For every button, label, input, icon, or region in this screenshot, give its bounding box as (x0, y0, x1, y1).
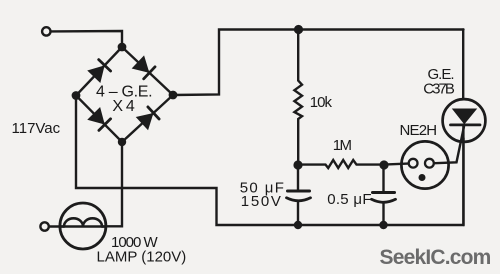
diode D3 (bottom-left, pointing to bottom node) (88, 108, 110, 130)
svg-text:SeekIC.com: SeekIC.com (380, 246, 491, 269)
node R1/1M/C1 junction (295, 162, 302, 169)
lamp LP1 1000W (circle + filament) (60, 203, 106, 249)
neon lamp NE2H (circle + electrodes) (401, 141, 448, 188)
capacitor C2 0.5uF (wire + plates) (372, 165, 396, 225)
wire junction to NE2H (384, 164, 408, 165)
SCR Q1 G.E. C37B (circle + thyristor symbol) (443, 30, 486, 226)
diode D2 (top-right, pointing to right node) (133, 57, 155, 79)
wire bridge diamond edges (76, 47, 173, 142)
node bridge-right (170, 92, 176, 98)
svg-text:LAMP (120V): LAMP (120V) (97, 249, 187, 266)
svg-text:1M: 1M (333, 137, 352, 154)
diode D1 (top-left, pointing to top node) (88, 60, 110, 82)
svg-text:C37B: C37B (423, 80, 455, 97)
svg-text:0.5 μF: 0.5 μF (327, 191, 372, 208)
resistor R1 10k (vertical) (294, 30, 302, 165)
svg-text:NE2H: NE2H (400, 122, 437, 139)
terminal T2 (bottom input) (40, 222, 48, 230)
terminal T1 (top input) (42, 27, 50, 35)
node top-rail junction (295, 26, 302, 33)
node 1M/C2/NE2H junction (381, 162, 388, 169)
node bridge-top (119, 44, 125, 50)
capacitor C1 50uF (wire + plates) (287, 165, 311, 225)
svg-text:150V: 150V (241, 193, 283, 210)
node bridge-left (73, 92, 79, 98)
resistor R2 1M (horizontal) (298, 160, 381, 168)
svg-text:10k: 10k (310, 94, 333, 111)
node C2-bus junction (381, 222, 387, 228)
svg-text:X 4: X 4 (112, 98, 135, 115)
wire bottom bus (bridge-left to SCR cathode) (76, 96, 464, 226)
wire T1 to bridge top (52, 31, 122, 45)
node bridge-bottom (119, 139, 125, 145)
wire bridge-bottom to lamp (106, 142, 122, 226)
wire NE2H to SCR gate (435, 127, 464, 164)
svg-text:117Vac: 117Vac (12, 120, 61, 137)
wire bridge-right to top rail (173, 30, 464, 96)
diode D4 (bottom-right, pointing to right node) (137, 107, 159, 129)
wire T2 to lamp (50, 225, 60, 227)
node C1-bus junction (295, 222, 301, 228)
